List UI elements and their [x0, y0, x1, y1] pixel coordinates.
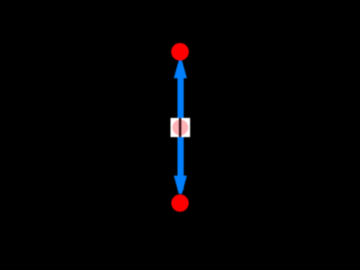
handle dot (pink circle) — [172, 120, 188, 136]
wire (arrow shaft) — [178, 70, 184, 190]
top arrowhead — [174, 60, 187, 78]
node B (bottom red dot) — [171, 194, 188, 211]
handle line (dark vertical mark) — [179, 118, 181, 137]
bottom arrowhead — [174, 176, 187, 194]
handle box (white square) — [171, 118, 191, 137]
node A (top red dot) — [171, 43, 189, 61]
